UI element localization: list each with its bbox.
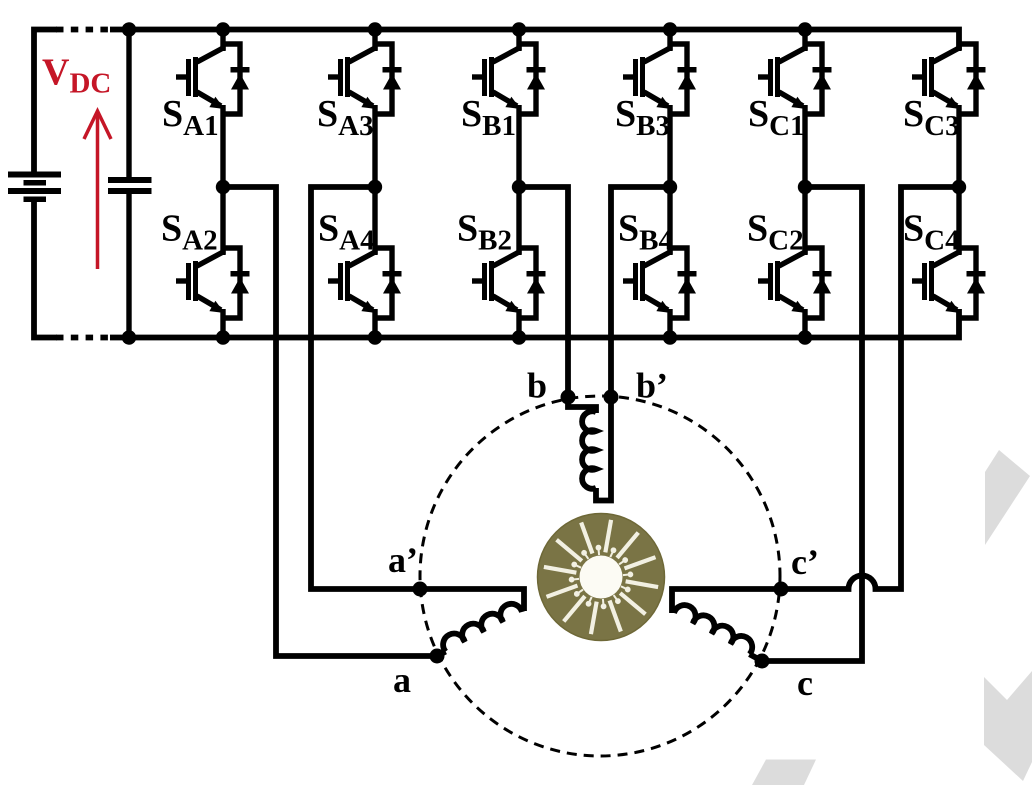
- wire lower emitter to bottom rail: [802, 309, 807, 338]
- svg-text:SC2: SC2: [747, 208, 804, 257]
- node b: [561, 390, 576, 405]
- transistor SB2: [472, 248, 546, 318]
- wire A midpoint to phase a: [223, 187, 437, 656]
- transistor SB3: [623, 44, 697, 114]
- wire A1 emitter to midpoint: [220, 105, 225, 187]
- svg-text:c: c: [797, 663, 813, 703]
- wire B3 collector lead: [667, 30, 672, 51]
- node B3 bottom: [663, 330, 677, 344]
- node capacitor top: [122, 22, 136, 36]
- wire midpoint to lower collector: [667, 187, 672, 254]
- transistor SC3: [912, 44, 986, 114]
- node C3 leg midpoint: [952, 180, 966, 194]
- node B1 top: [512, 22, 526, 36]
- wire winding c link: [750, 654, 763, 661]
- svg-text:SB2: SB2: [457, 208, 512, 257]
- svg-text:VDC: VDC: [42, 52, 111, 100]
- wire top DC bus rail: [34, 30, 57, 172]
- node A3 top: [368, 22, 382, 36]
- wire C1 emitter to midpoint: [802, 105, 807, 187]
- transistor SB4: [623, 248, 697, 318]
- node B leg midpoint: [512, 180, 526, 194]
- transistor SC1: [758, 44, 832, 114]
- wire B3 midpoint to phase b-prime: [596, 187, 670, 501]
- svg-text:c’: c’: [791, 542, 819, 582]
- svg-text:SB4: SB4: [618, 208, 673, 257]
- transistor SB1: [472, 44, 546, 114]
- arrow VDC direction: [84, 111, 111, 269]
- wire winding a link: [437, 652, 446, 657]
- stator dashed circle: [420, 396, 780, 756]
- wire midpoint to lower collector: [220, 187, 225, 254]
- wire C1 collector lead: [802, 30, 807, 51]
- svg-text:b: b: [527, 366, 547, 406]
- transistor SA4: [328, 248, 402, 318]
- node B1 bottom: [512, 330, 526, 344]
- wire bottom rail dotted section: [56, 335, 110, 341]
- capacitor C DC-link: [108, 177, 152, 194]
- wire top rail main: [110, 30, 959, 51]
- wire lower emitter to bottom rail: [220, 309, 225, 338]
- node capacitor bottom: [122, 330, 136, 344]
- winding b coil: [582, 411, 596, 488]
- wire midpoint to lower collector: [956, 187, 961, 254]
- wire lower emitter to bottom rail: [667, 309, 672, 338]
- node a: [430, 649, 445, 664]
- transistor SC2: [758, 248, 832, 318]
- wire A1 collector lead: [220, 30, 225, 51]
- node A3 leg midpoint: [368, 180, 382, 194]
- winding c coil: [674, 601, 756, 654]
- node A3 bottom: [368, 330, 382, 344]
- wire A3 emitter to midpoint: [372, 105, 377, 187]
- svg-text:b’: b’: [636, 366, 668, 406]
- winding a coil: [439, 600, 522, 652]
- wire C3 midpoint to phase c-prime with hop: [672, 187, 959, 613]
- node C1 bottom: [798, 330, 812, 344]
- wire bottom rail main: [110, 309, 959, 338]
- wire A3 collector lead: [372, 30, 377, 51]
- wire bottom DC bus rail: [34, 202, 57, 338]
- wire C midpoint to phase c: [762, 187, 862, 661]
- node C1 top: [798, 22, 812, 36]
- svg-text:a: a: [393, 660, 411, 700]
- wire B3 emitter to midpoint: [667, 105, 672, 187]
- wire top rail dotted section: [56, 27, 110, 33]
- watermark gray shape lower: [984, 671, 1032, 781]
- node c: [755, 654, 770, 669]
- battery VDC: [8, 172, 61, 203]
- node A1 bottom: [216, 330, 230, 344]
- wire A3 midpoint to phase a-prime: [311, 187, 524, 611]
- node b-prime: [604, 390, 619, 405]
- wire C3 emitter to midpoint: [956, 105, 961, 187]
- transistor SC4: [912, 248, 986, 318]
- wire capacitor top lead: [126, 30, 131, 178]
- node a-prime: [413, 582, 428, 597]
- wire midpoint to lower collector: [516, 187, 521, 254]
- node B3 leg midpoint: [663, 180, 677, 194]
- wire lower emitter to bottom rail: [372, 309, 377, 338]
- wire lower emitter to bottom rail: [516, 309, 521, 338]
- wire B1 emitter to midpoint: [516, 105, 521, 187]
- transistor SA1: [176, 44, 250, 114]
- wire midpoint to lower collector: [372, 187, 377, 254]
- node c-prime: [774, 582, 789, 597]
- svg-text:SC4: SC4: [903, 208, 960, 257]
- svg-text:SA2: SA2: [161, 208, 218, 257]
- node C leg midpoint: [798, 180, 812, 194]
- rotor image: [538, 514, 665, 641]
- transistor SA2: [176, 248, 250, 318]
- wire B midpoint to phase b: [519, 187, 596, 413]
- wire midpoint to lower collector: [802, 187, 807, 254]
- wire capacitor bottom lead: [126, 194, 131, 338]
- node B3 top: [663, 22, 677, 36]
- transistor SA3: [328, 44, 402, 114]
- watermark gray shape upper: [985, 450, 1030, 545]
- wire B1 collector lead: [516, 30, 521, 51]
- svg-text:a’: a’: [388, 540, 418, 580]
- svg-text:SA4: SA4: [318, 208, 375, 257]
- node A1 top: [216, 22, 230, 36]
- node A leg midpoint: [216, 180, 230, 194]
- watermark gray shape bottom-center: [752, 760, 816, 785]
